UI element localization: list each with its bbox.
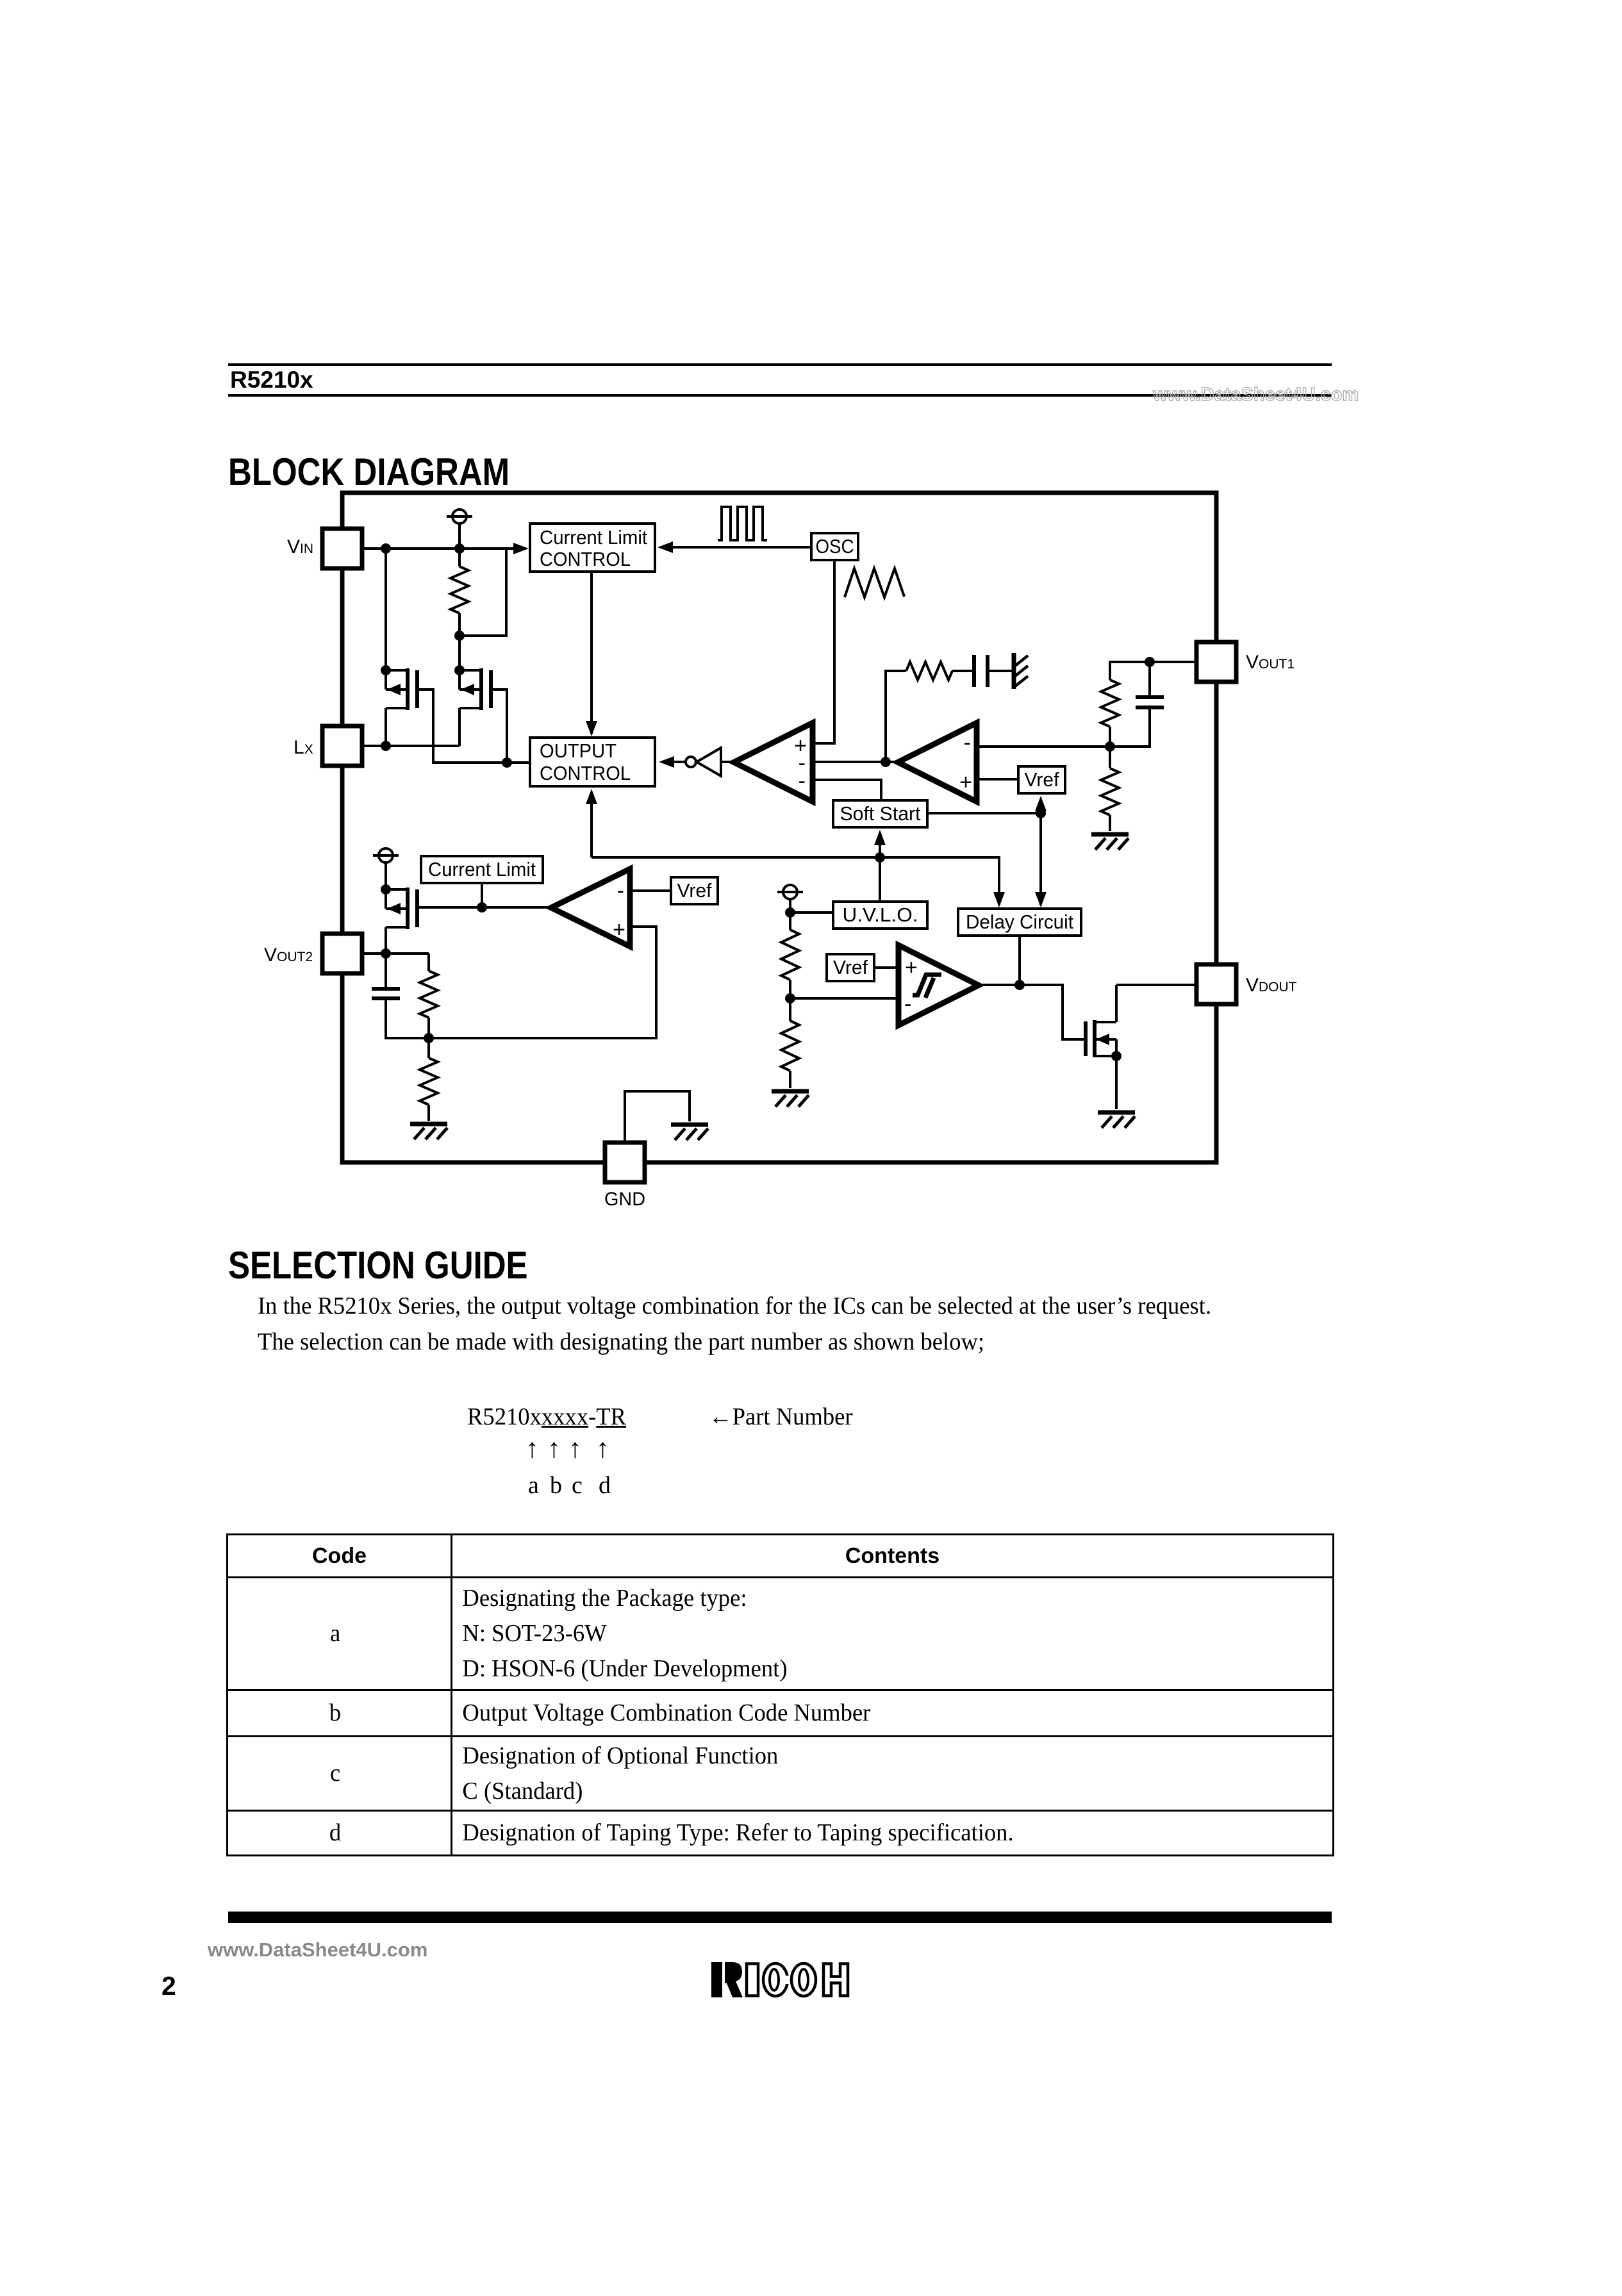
wire/arrow down into Delay Circuit: [1039, 813, 1042, 905]
svg-text:-: -: [617, 879, 624, 903]
square wave symbol: [718, 507, 767, 540]
Ricoh logo letter I: [747, 1964, 758, 1996]
block Vref (current limit): [671, 877, 718, 904]
op-amp schmitt comparator: [898, 945, 979, 1025]
letters a b c d: [528, 1473, 539, 1498]
transistor Q4 (NMOS): [1084, 1021, 1088, 1056]
wire/arrow up into OUTPUT CONTROL bottom: [590, 793, 593, 857]
wire inverter to OUTPUT CONTROL: [669, 761, 686, 763]
wire inverter input: [721, 761, 734, 763]
wire gate drive to OUTPUT CONTROL: [507, 761, 530, 764]
node VIN-R1: [454, 543, 465, 554]
svg-text:-: -: [964, 731, 971, 755]
ground comp (tilted): [1012, 653, 1016, 689]
wire CL amp + feedback: [429, 927, 656, 1038]
Ricoh logo letter O: [791, 1963, 816, 1996]
wire VIN rail: [362, 547, 525, 550]
node Q3 top: [381, 884, 391, 895]
node fb tap: [1105, 741, 1115, 752]
block Current Limit CONTROL: [530, 524, 655, 572]
sawtooth symbol: [845, 568, 904, 597]
svg-text:Vref: Vref: [677, 879, 712, 902]
header rule top: [228, 363, 1332, 366]
block Vref (error amp 1): [1018, 766, 1065, 793]
part number designator: [467, 1405, 633, 1429]
wire Delay Circuit to output node: [1018, 936, 1021, 985]
Ricoh logo letter C: [763, 1963, 788, 1996]
pin VOUT1: [1196, 642, 1236, 682]
wire Vref to schmitt +: [874, 966, 898, 969]
arrows up: [525, 1435, 539, 1462]
svg-text:Delay Circuit: Delay Circuit: [966, 911, 1073, 933]
wire to U.V.L.O. box: [790, 911, 833, 914]
hysteresis symbol: [913, 975, 941, 995]
wire VOUT2 rail: [362, 952, 429, 955]
resistor fb upper: [1101, 680, 1119, 727]
wire Current Limit to gate net: [481, 883, 483, 907]
wire sense node to Q2: [458, 636, 461, 670]
pin Lx: [322, 726, 362, 766]
block Delay Circuit: [958, 909, 1081, 936]
node soft start net: [1036, 808, 1046, 818]
block Soft Start: [833, 800, 927, 827]
svg-text:+: +: [613, 918, 625, 942]
svg-text:+: +: [905, 955, 918, 980]
svg-text:GND: GND: [604, 1189, 645, 1210]
op-amp error amp 1: [898, 723, 977, 802]
transistor Q2 (PMOS): [459, 669, 481, 672]
pin VDOUT: [1196, 964, 1236, 1004]
wire Q3 gate to CL amp: [418, 906, 551, 909]
ground GND riser: [671, 1123, 708, 1127]
IC outline box: [342, 493, 1216, 1162]
svg-text:-: -: [799, 769, 806, 793]
svg-text:OSC: OSC: [816, 535, 854, 557]
wire Q2 gate: [492, 690, 507, 763]
node VOUT2: [381, 948, 391, 959]
wire Lx rail: [362, 745, 459, 747]
capacitor fb: [1148, 662, 1151, 696]
wire VOUT1 to divider: [1150, 661, 1196, 663]
op-amp current limit: [551, 869, 630, 946]
capacitor comp: [972, 655, 976, 687]
wire power to rail: [458, 524, 461, 549]
node Lx-Q1: [381, 741, 391, 751]
wire VIN to Q1: [385, 549, 387, 670]
wire Soft Start output: [927, 812, 1041, 814]
Ricoh logo letter R: [711, 1962, 722, 1997]
svg-text:VIN: VIN: [287, 536, 313, 557]
power symbol (VIN sense): [452, 509, 467, 524]
svg-text:-: -: [904, 992, 911, 1016]
block OUTPUT CONTROL: [530, 738, 655, 786]
block Current Limit: [421, 856, 543, 883]
watermark top: [1153, 384, 1359, 406]
wire error-amp1 output to PWM - input: [813, 761, 898, 763]
Ricoh logo letter H: [823, 1964, 848, 1996]
header rule bottom: [228, 394, 1332, 397]
svg-text:LX: LX: [294, 737, 313, 758]
node VIN-T1: [381, 543, 391, 554]
wire fb tap to error amp -: [977, 745, 1110, 748]
node comp: [881, 757, 891, 767]
wire error amp + to Vref: [977, 778, 1018, 780]
heading SELECTION GUIDE: [228, 1246, 581, 1285]
svg-text:U.V.L.O.: U.V.L.O.: [843, 904, 918, 926]
wire Current Limit CONTROL to OUTPUT CONTROL: [590, 572, 593, 734]
node VOUT2 tap: [424, 1033, 434, 1043]
footer bar: [228, 1912, 1332, 1923]
node sense: [454, 631, 465, 641]
node VOUT1 fb: [1145, 657, 1155, 667]
svg-text:CONTROL: CONTROL: [540, 762, 631, 784]
selection table: [226, 1533, 1334, 1856]
inverter bubble: [686, 757, 696, 767]
svg-text:VOUT1: VOUT1: [1246, 652, 1295, 673]
block OSC: [811, 533, 858, 560]
ground Q4: [1098, 1111, 1135, 1115]
svg-text:CONTROL: CONTROL: [540, 548, 631, 570]
wire/arrow up into Vref: [1039, 802, 1042, 813]
wire Q2 source to Lx rail: [458, 708, 461, 746]
block U.V.L.O.: [833, 902, 927, 929]
transistor Q3 (PMOS): [386, 888, 408, 891]
node UVLO top: [785, 907, 795, 918]
wire GND riser: [625, 1091, 690, 1143]
wire Q1 source to Lx rail: [385, 708, 387, 746]
wire Q4 drain to VDOUT: [1116, 984, 1196, 986]
op-amp PWM comparator: [734, 723, 813, 802]
wire sense to comparator input: [459, 549, 506, 636]
svg-text:VOUT2: VOUT2: [264, 945, 313, 966]
node UVLO tap: [785, 993, 795, 1003]
resistor VOUT2 lower: [427, 1038, 430, 1058]
node gate net: [477, 902, 487, 913]
wire Q3 to VOUT2: [385, 927, 387, 954]
wire comp node up: [886, 671, 906, 762]
node Q4 source: [1111, 1051, 1121, 1061]
svg-text:Current Limit: Current Limit: [540, 526, 647, 549]
resistor VOUT2 upper: [427, 954, 430, 971]
transistor Q1 (PMOS): [386, 669, 408, 672]
resistor fb lower: [1109, 747, 1111, 768]
svg-text:Current Limit: Current Limit: [428, 858, 536, 880]
ground VOUT2 divider: [410, 1122, 447, 1127]
wire power to Q3: [385, 863, 387, 889]
pin GND: [605, 1143, 645, 1182]
heading BLOCK DIAGRAM: [228, 453, 559, 491]
arrow into Current Limit CONTROL: [513, 543, 529, 554]
paragraph 1: [258, 1294, 1248, 1318]
page number: [161, 1973, 176, 1999]
pin VIN: [322, 529, 362, 568]
wire Q4 source to ground: [1115, 1056, 1118, 1109]
wire schmitt output: [979, 985, 1086, 1039]
wire UVLO net: [592, 857, 999, 905]
wire CL amp - to Vref: [630, 889, 671, 892]
wire OSC to PWM comparator: [813, 560, 834, 743]
wire tap to schmitt -: [790, 997, 898, 1000]
svg-text:Vref: Vref: [833, 956, 868, 979]
wire/arrow up into Soft Start bottom: [879, 834, 881, 857]
inverter triangle: [697, 748, 721, 776]
resistor R current-sense: [458, 549, 461, 566]
power symbol (UVLO): [783, 885, 797, 899]
svg-text:VDOUT: VDOUT: [1246, 975, 1297, 996]
ground fb divider: [1091, 832, 1129, 837]
resistor UVLO lower: [789, 998, 791, 1021]
arrow into Current Limit CONTROL right: [658, 541, 673, 553]
pin VOUT2: [322, 934, 362, 973]
paragraph 2: [258, 1330, 1013, 1354]
resistor comp: [906, 662, 952, 680]
ground UVLO divider: [772, 1089, 809, 1094]
svg-text:Vref: Vref: [1025, 768, 1059, 791]
watermark bottom: [208, 1938, 427, 1962]
wire OSC to Current Limit CONTROL: [666, 546, 811, 549]
wire UVLO box top: [879, 857, 881, 902]
header part number R5210x: [230, 368, 313, 392]
node delay output: [1014, 980, 1025, 990]
node gate drive: [502, 757, 512, 768]
svg-text:Soft Start: Soft Start: [840, 802, 921, 825]
capacitor VOUT2: [385, 954, 387, 987]
block Vref (schmitt): [827, 954, 874, 981]
svg-text:OUTPUT: OUTPUT: [540, 739, 617, 762]
node UVLO net: [875, 852, 885, 863]
power symbol (VOUT2): [379, 848, 393, 863]
wire PWM - input 2 to Soft Start: [813, 780, 881, 800]
wire Q1 gate: [418, 690, 507, 763]
resistor UVLO upper: [789, 913, 791, 930]
svg-text:+: +: [959, 770, 972, 795]
